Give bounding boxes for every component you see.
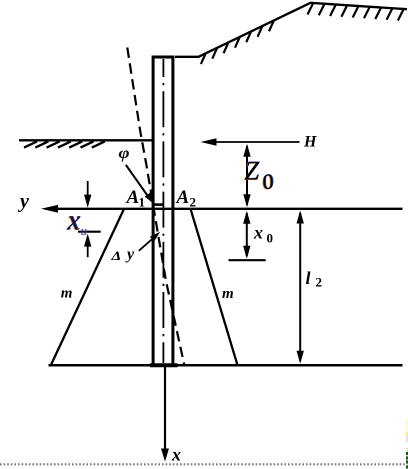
svg-text:x: x xyxy=(67,206,81,237)
svg-text:A: A xyxy=(176,187,190,208)
svg-text:x: x xyxy=(171,445,181,465)
svg-text:m: m xyxy=(61,286,73,302)
svg-text:H: H xyxy=(303,134,317,151)
svg-text:A: A xyxy=(126,187,140,208)
svg-text:Z: Z xyxy=(245,156,260,185)
svg-text:l: l xyxy=(306,268,311,288)
svg-text:y: y xyxy=(18,191,29,213)
svg-text:Δ: Δ xyxy=(110,249,121,263)
svg-text:y: y xyxy=(125,246,135,263)
svg-text:1: 1 xyxy=(139,195,146,210)
svg-text:2: 2 xyxy=(316,275,323,290)
svg-text:m: m xyxy=(222,286,234,302)
svg-text:x: x xyxy=(253,223,263,243)
svg-text:0: 0 xyxy=(263,169,274,194)
svg-text:2: 2 xyxy=(190,195,197,210)
svg-text:0: 0 xyxy=(267,231,274,246)
svg-text:φ: φ xyxy=(119,145,130,162)
svg-text:u: u xyxy=(81,223,88,238)
